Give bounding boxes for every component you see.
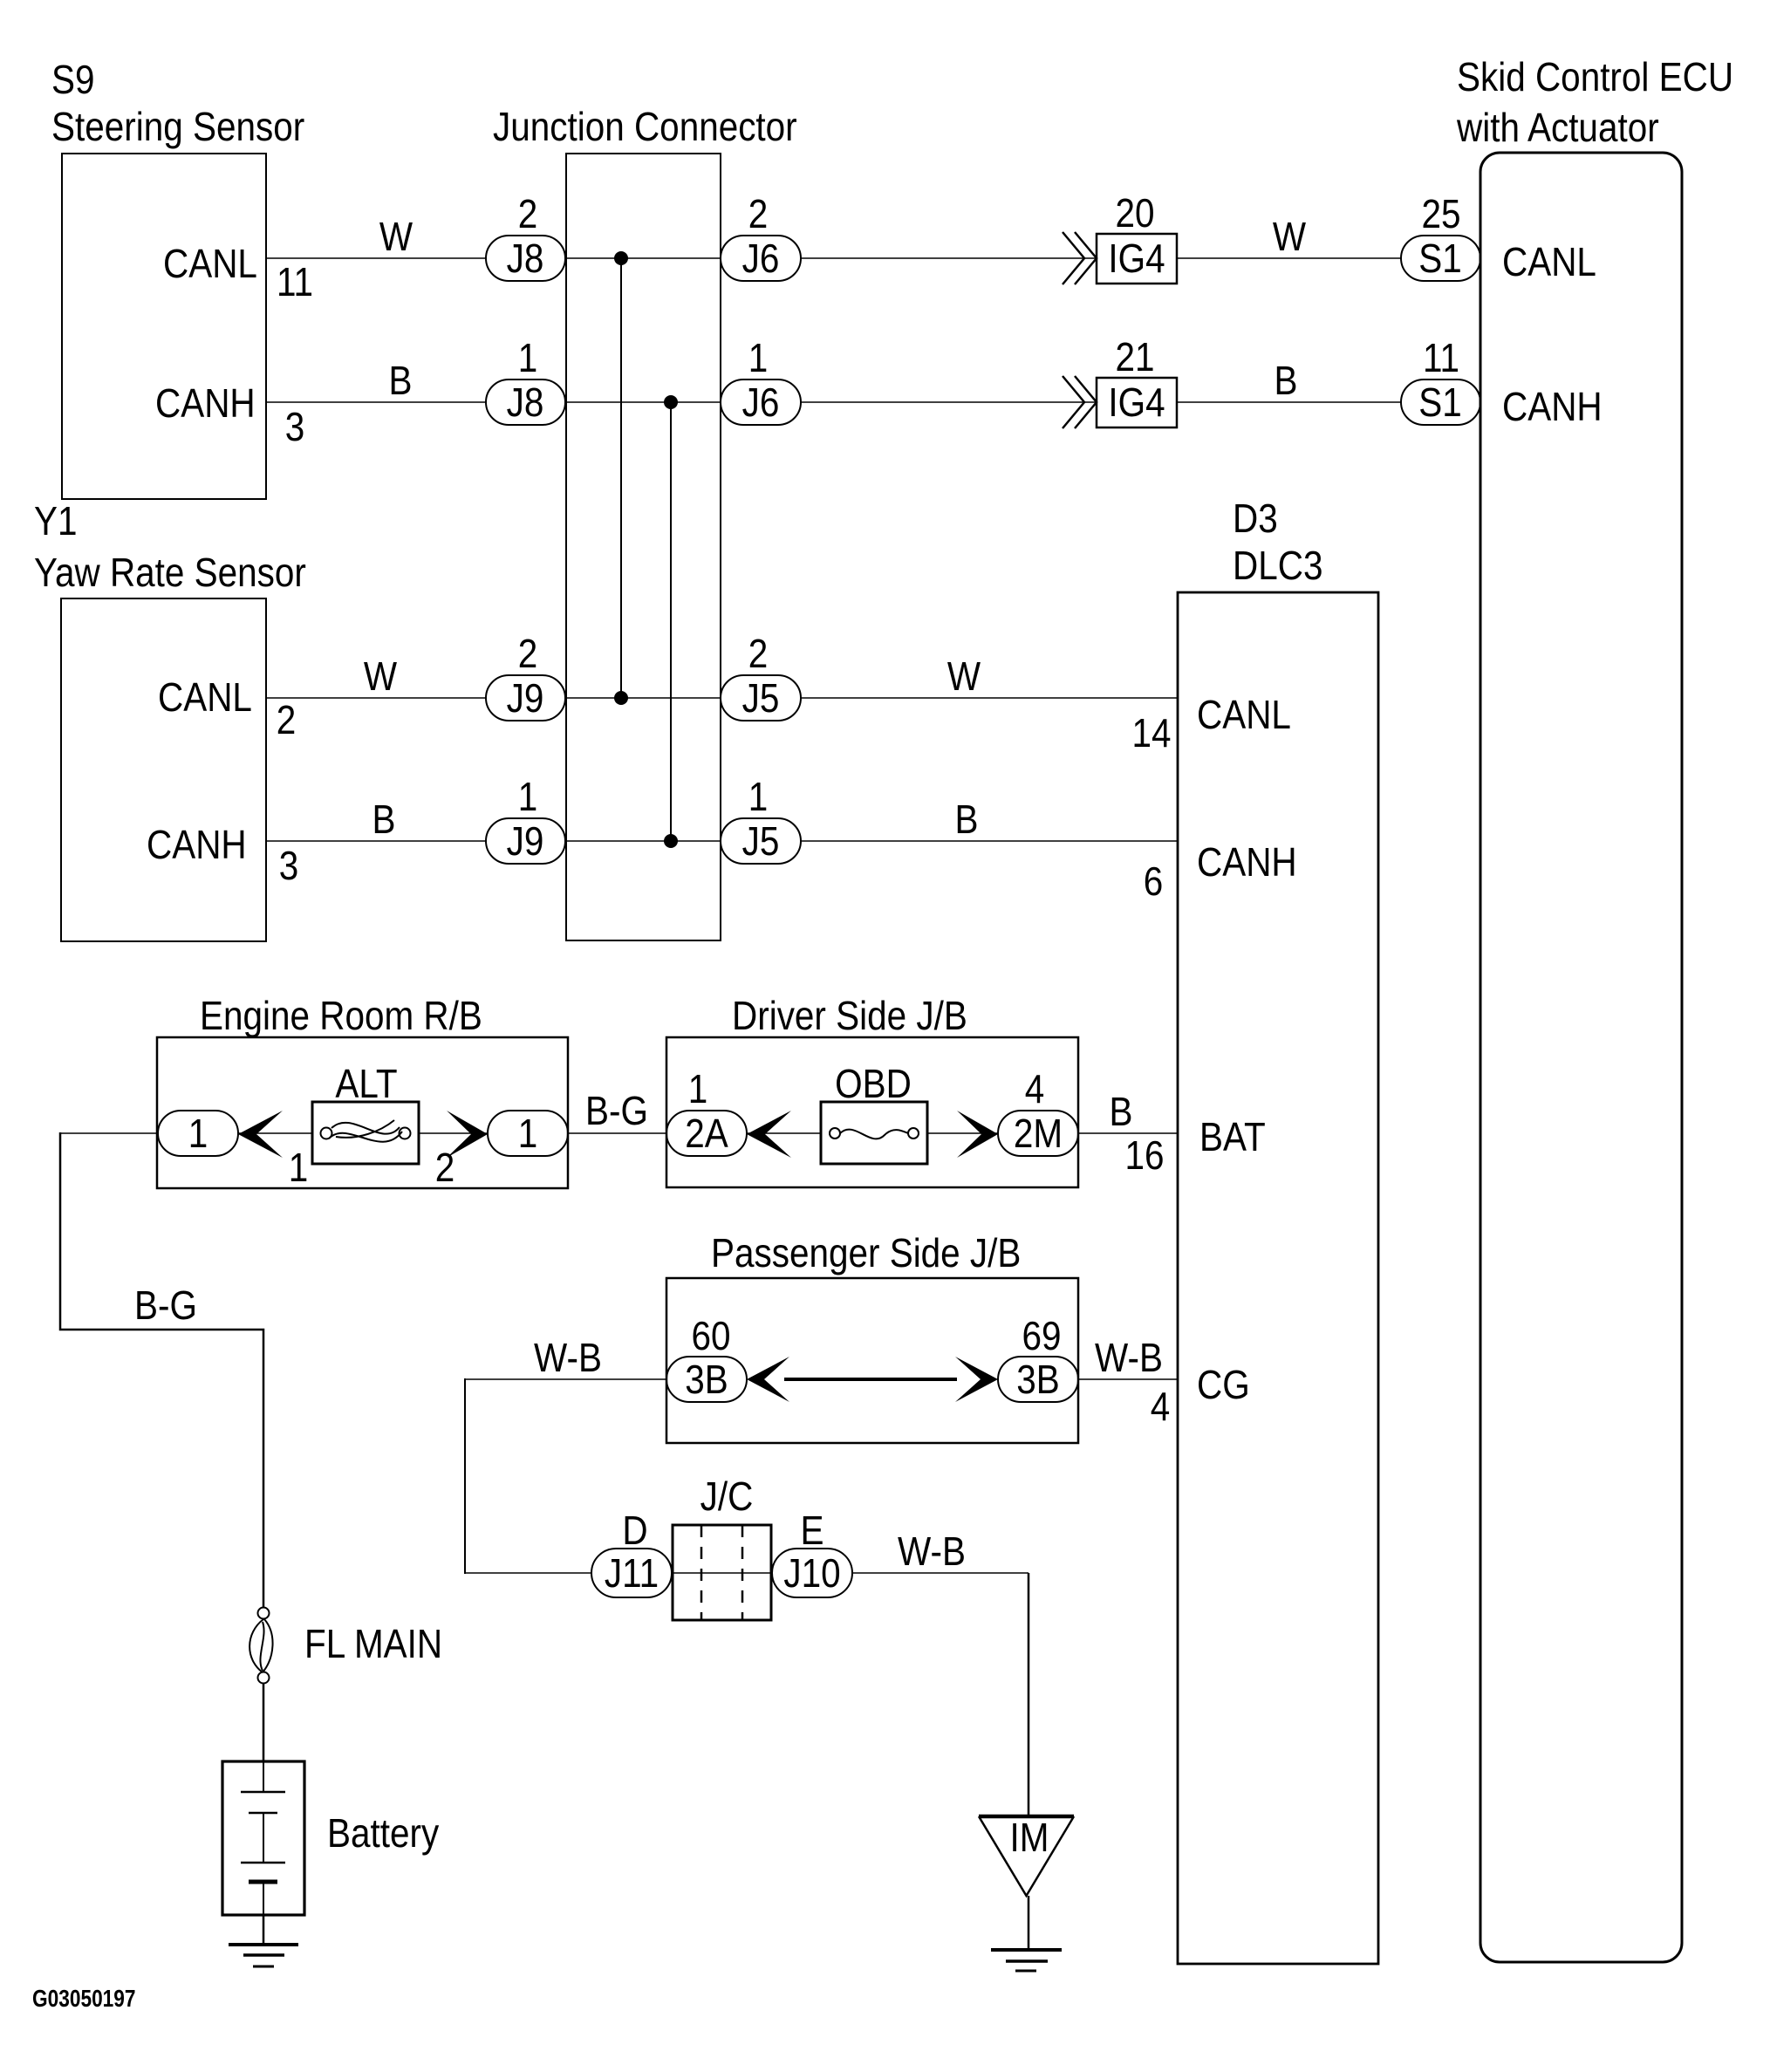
wire down to IM [1028, 1573, 1030, 1816]
svg-text:B-G: B-G [585, 1090, 648, 1134]
svg-text:J9: J9 [507, 820, 544, 865]
connector oval 3B right [998, 1357, 1078, 1402]
wire J6 to IG4 row2 [801, 401, 1097, 403]
svg-text:B: B [389, 359, 413, 404]
svg-text:BAT: BAT [1199, 1116, 1266, 1160]
svg-text:W: W [364, 655, 397, 700]
connector oval S1 row2 [1401, 380, 1480, 425]
connector oval 2M [998, 1111, 1078, 1156]
svg-text:Driver Side J/B: Driver Side J/B [732, 995, 967, 1039]
svg-text:J/C: J/C [700, 1475, 754, 1520]
wire CANH steering to J8 [266, 401, 486, 403]
wire CG vertical [464, 1378, 466, 1574]
bold wire passenger J/B [784, 1378, 957, 1381]
connector IG4 box row1 [1097, 234, 1177, 284]
svg-text:J6: J6 [742, 381, 780, 426]
svg-text:2: 2 [518, 193, 538, 237]
junction dot row2 [664, 395, 678, 409]
svg-text:J8: J8 [507, 237, 544, 282]
svg-text:69: 69 [1022, 1315, 1061, 1359]
svg-text:B: B [372, 798, 396, 843]
connector oval J8 row2 [486, 380, 565, 425]
wire J8 to J6 row2 [565, 401, 721, 403]
connector oval J5 row4 [721, 818, 801, 864]
svg-text:CG: CG [1197, 1364, 1250, 1408]
svg-text:11: 11 [277, 261, 313, 305]
wire 3B to DLC3 CG W-B [1078, 1378, 1178, 1380]
svg-text:1: 1 [748, 776, 769, 820]
svg-text:2: 2 [518, 633, 538, 677]
wire through J/C [672, 1572, 772, 1574]
wire CANL steering to J8 [266, 257, 486, 259]
svg-text:Battery: Battery [327, 1812, 440, 1857]
wire corner to J11 [465, 1572, 591, 1574]
connector oval J9 row4 [486, 818, 565, 864]
svg-text:CANL: CANL [1197, 694, 1291, 738]
ground IM [991, 1948, 1062, 1952]
svg-text:2A: 2A [685, 1112, 728, 1157]
splice chevron row1 a [1063, 232, 1084, 284]
svg-text:3B: 3B [1016, 1358, 1060, 1403]
connector oval J6 row2 [721, 380, 801, 425]
svg-text:1: 1 [688, 1068, 708, 1112]
wire CANL yaw to J9 [266, 697, 486, 699]
svg-text:J11: J11 [605, 1552, 659, 1597]
wire J9 to J5 row4 [565, 840, 721, 842]
fuse OBD box [821, 1102, 927, 1164]
svg-text:IG4: IG4 [1108, 237, 1165, 282]
svg-text:Engine Room R/B: Engine Room R/B [200, 995, 482, 1039]
svg-text:14: 14 [1131, 712, 1171, 756]
wire fuse to battery [263, 1683, 265, 1761]
svg-text:Yaw Rate Sensor: Yaw Rate Sensor [34, 551, 306, 596]
svg-text:CANH: CANH [155, 382, 256, 427]
svg-text:B: B [1110, 1091, 1133, 1135]
svg-text:J9: J9 [507, 677, 544, 721]
svg-text:4: 4 [1025, 1068, 1045, 1112]
svg-text:IG4: IG4 [1108, 381, 1165, 426]
svg-text:CANH: CANH [1197, 841, 1297, 886]
wire 2M to DLC3 BAT [1078, 1132, 1178, 1134]
svg-text:2: 2 [277, 699, 297, 743]
svg-text:E: E [801, 1509, 824, 1554]
svg-text:with Actuator: with Actuator [1456, 106, 1659, 151]
steering sensor S9 box [62, 154, 266, 499]
svg-text:S1: S1 [1418, 381, 1462, 426]
svg-text:1: 1 [518, 776, 538, 820]
svg-text:B: B [955, 798, 979, 843]
svg-text:CANL: CANL [158, 676, 252, 721]
connector oval 1 engine right [488, 1111, 568, 1156]
connector oval 2A [666, 1111, 747, 1156]
wire OBD to 2M [927, 1132, 998, 1134]
svg-text:3: 3 [279, 845, 299, 889]
svg-text:OBD: OBD [835, 1063, 912, 1107]
svg-text:1: 1 [518, 337, 538, 381]
svg-text:D: D [622, 1509, 647, 1554]
yaw rate sensor Y1 box [61, 598, 266, 941]
svg-text:4: 4 [1151, 1385, 1171, 1430]
svg-text:D3: D3 [1233, 497, 1278, 542]
svg-text:CANH: CANH [1502, 386, 1603, 430]
connector oval 3B left [666, 1357, 747, 1402]
wire B-G vertical left [60, 1132, 263, 1608]
wire IM to ground [1028, 1896, 1030, 1950]
svg-text:W: W [947, 655, 981, 700]
connector oval S1 row1 [1401, 236, 1480, 281]
svg-text:J5: J5 [742, 820, 780, 865]
svg-text:2: 2 [748, 633, 769, 677]
junction bus vertical 2 [670, 402, 672, 841]
driver side J/B box [666, 1037, 1078, 1187]
svg-text:2: 2 [435, 1146, 455, 1191]
arrow left engine [238, 1111, 283, 1158]
wire J8 to J6 row1 [565, 257, 721, 259]
skid control ECU box [1480, 153, 1682, 1962]
svg-text:60: 60 [691, 1315, 730, 1359]
wire IG4 to S1 row2 [1177, 401, 1401, 403]
svg-text:1: 1 [188, 1112, 208, 1157]
connector IG4 box row2 [1097, 378, 1177, 427]
passenger side J/B box [666, 1278, 1078, 1443]
wire 3B left W-B [465, 1378, 666, 1380]
connector oval J6 row1 [721, 236, 801, 281]
svg-text:B: B [1275, 359, 1298, 404]
svg-text:J5: J5 [742, 677, 780, 721]
svg-text:W: W [1273, 215, 1306, 260]
svg-text:1: 1 [289, 1146, 309, 1191]
arrow right driver [957, 1111, 998, 1158]
J/C dashed line 2 [741, 1525, 744, 1620]
svg-text:FL MAIN: FL MAIN [304, 1623, 442, 1667]
splice chevron row1 b [1075, 232, 1097, 284]
svg-text:Y1: Y1 [34, 500, 78, 544]
svg-text:2: 2 [748, 193, 769, 237]
wire CANH yaw to J9 [266, 840, 486, 842]
svg-text:3B: 3B [685, 1358, 728, 1403]
connector oval J10 [772, 1549, 852, 1597]
svg-text:3: 3 [285, 406, 305, 450]
svg-text:J6: J6 [742, 237, 780, 282]
svg-text:S1: S1 [1418, 237, 1462, 282]
svg-text:11: 11 [1423, 337, 1459, 381]
svg-text:Steering Sensor: Steering Sensor [51, 106, 304, 150]
fuse OBD element [830, 1128, 840, 1139]
svg-text:IM: IM [1010, 1816, 1049, 1861]
svg-text:CANL: CANL [163, 243, 257, 287]
wire J6 to IG4 row1 [801, 257, 1097, 259]
wire J5 to DLC3 CANH [801, 840, 1178, 842]
connector oval J9 row3 [486, 675, 565, 721]
DLC3 D3 box [1178, 592, 1378, 1964]
wire oval1 to ALT [238, 1132, 312, 1134]
svg-text:B-G: B-G [134, 1284, 197, 1329]
svg-text:1: 1 [518, 1112, 538, 1157]
connector oval J8 row1 [486, 236, 565, 281]
wire ALT to oval1 right [419, 1132, 488, 1134]
junction dot row1 [614, 251, 628, 265]
fuse ALT box [312, 1102, 419, 1164]
arrow right passenger [955, 1357, 998, 1402]
battery cell plates [263, 1761, 264, 1792]
svg-text:Skid Control ECU: Skid Control ECU [1457, 56, 1733, 100]
junction dot row4 [664, 834, 678, 848]
splice chevron row2 a [1063, 376, 1084, 428]
svg-text:Passenger Side J/B: Passenger Side J/B [711, 1232, 1021, 1276]
junction bus vertical 1 [620, 258, 622, 698]
connector oval J11 [591, 1549, 672, 1597]
connector oval J5 row3 [721, 675, 801, 721]
svg-text:S9: S9 [51, 58, 95, 103]
wire J9 to J5 row3 [565, 697, 721, 699]
svg-text:20: 20 [1115, 192, 1154, 236]
connector oval 1 engine left [158, 1111, 238, 1156]
svg-text:W-B: W-B [534, 1337, 602, 1381]
engine room R/B box [157, 1037, 568, 1188]
arrow left driver [747, 1111, 791, 1158]
fusible link FL MAIN element [258, 1608, 270, 1619]
wire J5 to DLC3 CANL [801, 697, 1178, 699]
fuse ALT element [321, 1128, 332, 1139]
wire J10 to IM corner W-B [852, 1572, 1029, 1574]
junction dot row3 [614, 691, 628, 705]
svg-text:DLC3: DLC3 [1233, 544, 1322, 589]
svg-text:J8: J8 [507, 381, 544, 426]
arrow left passenger [747, 1357, 789, 1402]
svg-text:2M: 2M [1014, 1112, 1063, 1157]
junction connector J/C box [673, 1525, 771, 1620]
svg-text:CANL: CANL [1502, 241, 1596, 285]
svg-text:J10: J10 [783, 1552, 840, 1597]
J/C dashed line 1 [700, 1525, 703, 1620]
svg-text:21: 21 [1115, 336, 1154, 380]
wire BAT engine to driver B-G [568, 1132, 666, 1134]
svg-text:ALT: ALT [335, 1063, 397, 1107]
svg-text:CANH: CANH [147, 824, 247, 868]
svg-text:W-B: W-B [1095, 1337, 1163, 1381]
svg-text:16: 16 [1124, 1134, 1164, 1179]
svg-text:W: W [379, 215, 413, 260]
svg-text:Junction Connector: Junction Connector [493, 106, 797, 150]
wire 2A to OBD [747, 1132, 821, 1134]
svg-text:1: 1 [748, 337, 769, 381]
ground triangle IM [979, 1816, 1074, 1896]
wire battery to ground [263, 1915, 265, 1945]
wire oval1 left stub [60, 1132, 158, 1134]
ground battery [229, 1943, 298, 1946]
wire IG4 to S1 row1 [1177, 257, 1401, 259]
battery box [222, 1761, 304, 1915]
arrow right engine [447, 1111, 488, 1158]
svg-text:W-B: W-B [898, 1530, 966, 1575]
svg-text:25: 25 [1421, 193, 1460, 237]
splice chevron row2 b [1075, 376, 1097, 428]
junction connector box [566, 154, 721, 940]
svg-text:G03050197: G03050197 [32, 1986, 136, 2013]
svg-text:6: 6 [1144, 860, 1164, 905]
